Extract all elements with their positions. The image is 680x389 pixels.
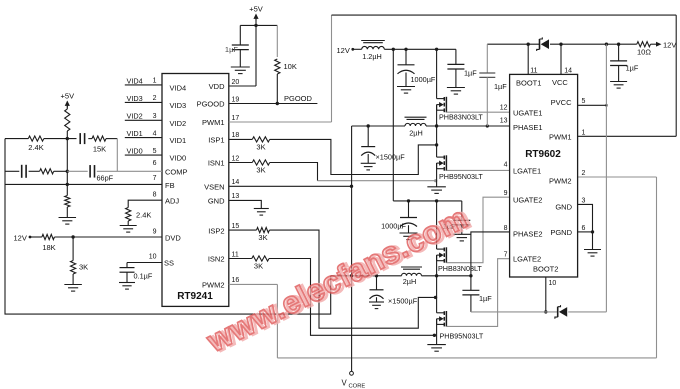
diode D2 bootstrap [555,305,567,319]
svg-text:18K: 18K [42,243,55,252]
svg-text:VID1: VID1 [170,136,187,145]
svg-text:19: 19 [232,96,240,103]
svg-text:PWM1: PWM1 [202,118,225,127]
svg-text:VID0: VID0 [127,147,143,156]
wire 1uF-10K top tie [240,24,277,57]
resistor R10 3K [252,256,269,271]
capacitor C7 x1500uF [361,126,405,163]
svg-text:VDD: VDD [209,82,225,91]
wire DVD row [54,235,162,238]
power +5V rail (left divider) [61,91,75,109]
op-amp U1 RT9241 body [162,74,229,307]
wire 12V boot line [487,43,637,46]
svg-text:PHASE2: PHASE2 [513,230,543,239]
svg-text:VSEN: VSEN [204,183,224,192]
capacitor C9 1uF [443,201,471,234]
node RT9602 pin 4 [504,161,508,168]
svg-text:VID2: VID2 [127,112,143,121]
ground for C4 [119,283,135,290]
svg-text:7: 7 [153,175,157,182]
node RT9241 pin 16 PWM2 label [202,277,239,289]
node RT9602 BOOT1 label [516,79,541,88]
svg-text:1µF: 1µF [464,69,477,78]
node RT9602 pin 10 [549,280,557,287]
svg-text:ISP1: ISP1 [208,136,224,145]
wire ADJ to R4 [128,200,162,207]
svg-text:10: 10 [149,254,157,261]
node RT9602 PHASE2 label [513,230,543,239]
svg-text:9: 9 [153,228,157,235]
node pin8 ADJ label [153,192,180,206]
svg-text:DVD: DVD [165,233,181,242]
node RT9602 pin 11 [530,68,537,75]
svg-text:ISN1: ISN1 [208,159,225,168]
svg-text:VCC: VCC [552,78,568,87]
node RT9241 pin 11 ISN2 label [208,251,239,263]
svg-text:5: 5 [153,148,157,155]
node RT9241 pin 17 PWM1 label [202,115,239,127]
node RT9241 pin 12 ISN1 label [208,155,240,167]
wire VCC stub [560,44,562,74]
node pin7 FB label [153,175,175,190]
node RT9602 pin 3 [582,197,586,204]
svg-text:COMP: COMP [165,167,188,176]
power +5V rail (VDD) [249,5,263,87]
node RT9602 pin 14 [564,68,572,75]
capacitor C4 0.1uF [120,268,153,283]
wire DVD divider drop [72,237,74,261]
wire ISP1 lead [229,138,253,140]
node RT9602 PGND label [550,228,572,237]
wire FB left loop [5,139,331,315]
resistor R5 18K [42,234,56,252]
svg-text:2.4K: 2.4K [28,143,43,152]
ground for C_vdd [231,67,250,74]
transistor Q1 PHB83N03LT [437,49,484,126]
wire BOOT1 stub [527,44,529,74]
capacitor C_comp2 [22,165,26,178]
svg-text:3: 3 [153,113,157,120]
wire BOOT2 stub [544,277,547,314]
op-amp U2 RT9602 body [510,74,578,277]
node RT9602 PWM1 label [549,133,572,142]
diode D1 bootstrap [537,37,549,51]
svg-text:12V: 12V [337,46,350,55]
svg-text:11: 11 [232,251,239,258]
svg-text:18: 18 [232,132,240,139]
node RT9602 pin 12 [500,104,508,111]
node RT9602 UGATE1 label [513,109,542,118]
ground for C5 [397,87,415,94]
svg-text:1: 1 [153,78,157,85]
wire FB divider vertical [66,137,69,196]
svg-text:1000µF: 1000µF [411,75,436,84]
svg-text:V: V [342,379,348,388]
svg-text:ISN2: ISN2 [208,255,225,264]
svg-text:PHB95N03LT: PHB95N03LT [439,172,483,181]
svg-text:VID4: VID4 [127,76,143,85]
wire VID0 input net [125,147,186,163]
inductor L3 2uH [401,267,422,286]
svg-text:6: 6 [582,225,586,232]
node RT9602 pin 8 [504,225,508,232]
wire GND PGND tie [578,204,595,249]
wire UGATE1 net [446,111,509,113]
svg-text:VID1: VID1 [127,129,143,138]
wire PHASE2 pin drop [469,232,509,291]
capacitor C8 1000uF [381,201,417,233]
svg-text:PHB83N03LT: PHB83N03LT [438,264,482,273]
ground for C10 [369,302,384,309]
svg-text:13: 13 [232,193,240,200]
svg-text:1: 1 [582,129,586,136]
capacitor C10 x1500uF [370,276,418,306]
wire 12V feed ch2 vertical [392,49,394,201]
svg-text:LGATE2: LGATE2 [513,255,541,264]
svg-text:+5V: +5V [61,91,75,100]
svg-text:2µH: 2µH [409,129,423,138]
svg-text:VID3: VID3 [127,94,143,103]
wire FB row [5,183,162,185]
transistor Q4 PHB95N03LT [437,276,484,345]
svg-text:ISP2: ISP2 [208,226,224,235]
node RT9241 pin 20 VDD label [209,79,240,91]
capacitor C12 1uF bootstrap1 [479,44,507,126]
node RT9602 UGATE2 label [513,196,542,205]
node RT9602 pin 6 [582,225,586,232]
svg-text:1µF: 1µF [225,45,238,54]
resistor R1 2.4K [28,136,44,152]
wire comp join vertical [116,139,118,172]
inductor L2 2uH [405,117,427,137]
wire GND pin13 [229,200,261,208]
wire ISP2 lead [229,229,257,231]
node RT9602 pin 2 [582,170,586,177]
svg-text:3K: 3K [79,263,88,272]
svg-text:15K: 15K [93,145,106,154]
svg-text:4: 4 [153,130,157,137]
svg-text:VID2: VID2 [170,119,187,128]
node RT9602 BOOT2 label [533,265,558,274]
svg-text:16: 16 [232,277,240,284]
svg-text:3K: 3K [256,166,265,175]
node RT9602 pin 5 [582,98,586,105]
resistor R_div_top [65,109,70,139]
wire ISN2 route [269,259,436,337]
svg-text:10K: 10K [284,62,297,71]
svg-text:2: 2 [153,95,157,102]
svg-text:20: 20 [232,79,240,86]
svg-text:FB: FB [165,181,175,190]
svg-text:14: 14 [564,68,572,75]
svg-text:4: 4 [504,161,508,168]
svg-text:PGND: PGND [550,228,572,237]
capacitor C13 1uF [610,44,639,81]
ground for U2 GND [584,250,601,257]
svg-text:12: 12 [500,104,508,111]
node RT9602 pin 7 [504,252,508,259]
wire ISN2 lead [229,258,252,260]
svg-text:PVCC: PVCC [551,98,572,107]
wire 12V rail ch2 [393,199,462,202]
wire BOOT2 line [471,311,607,313]
svg-text:7: 7 [504,252,508,259]
svg-text:LGATE1: LGATE1 [513,167,541,176]
node RT9602 pin 13 [500,118,508,125]
wire PHASE1 line [352,124,510,127]
resistor R8 3K [252,160,269,175]
svg-text:+5V: +5V [249,5,263,14]
svg-text:2µH: 2µH [403,277,417,286]
svg-text:13: 13 [500,118,508,125]
wire LGATE2 net [446,259,509,327]
resistor R9 3K [257,228,270,243]
svg-text:VID3: VID3 [170,101,187,110]
wire VCORE vertical [350,126,354,375]
resistor R6 3K [71,261,89,285]
wire LGATE1 net [446,169,509,171]
resistor R2 15K [92,136,106,154]
node RT9602 VCC label [552,78,568,87]
wire comp row1 [5,138,117,140]
svg-text:1µF: 1µF [479,294,492,303]
wire VID1 input net [125,129,186,145]
ground for R6 [64,285,82,292]
wire VID3 input net [125,94,186,110]
wire PVCC row [578,104,607,106]
svg-text:3K: 3K [256,143,265,152]
wire VDD pin20 to +5V [229,85,256,87]
ground for Q2 source [427,187,446,194]
svg-text:PWM1: PWM1 [549,133,572,142]
svg-text:PHASE1: PHASE1 [513,123,543,132]
wire PHASE2 line [331,274,471,277]
wire VSEN net [229,185,353,188]
wire VID4 input net [125,76,186,92]
node RT9602 pin 9 [504,190,508,197]
svg-text:8: 8 [153,192,157,199]
transistor Q2 PHB95N03LT [437,126,484,187]
resistor R11 10ohm [637,42,652,57]
svg-text:1.2µH: 1.2µH [362,52,382,61]
ground for R4 [120,226,137,233]
svg-text:12V: 12V [663,41,676,50]
capacitor C_comp1 [80,133,84,144]
node RT9602 LGATE1 label [513,167,541,176]
svg-text:2: 2 [582,170,586,177]
power 12V source (ch1) [337,46,362,55]
svg-text:11: 11 [530,68,537,75]
svg-text:ADJ: ADJ [165,197,179,206]
svg-text:VID0: VID0 [170,154,187,163]
node pin10 SS label [149,254,174,268]
svg-text:GND: GND [208,197,225,206]
capacitor C3 66pF [90,165,114,182]
node pin6 COMP label [153,160,188,176]
svg-text:3: 3 [582,197,586,204]
svg-text:GND: GND [555,203,572,212]
svg-text:BOOT1: BOOT1 [516,79,541,88]
wire 12V rail ch1 [384,48,456,51]
resistor R3 [40,169,54,174]
wire ISN1 lead [229,162,253,164]
inductor L1 1.2uH [361,41,385,62]
ground for C6 [447,88,465,95]
node RT9241 pin 19 PGOOD label [197,96,240,108]
node RT9602 PWM2 label [549,177,572,186]
svg-text:1µF: 1µF [626,64,639,73]
capacitor C11 1uF bootstrap2 [462,290,492,312]
wire PVCC feed vertical [605,44,608,312]
svg-text:VID4: VID4 [170,83,187,92]
node RT9602 PVCC label [551,98,572,107]
svg-text:10Ω: 10Ω [637,48,651,57]
wire PWM2 route [229,177,657,358]
power 12V source (DVD) [14,233,42,242]
resistor R7 3K [252,137,269,152]
wire SS row [127,263,162,268]
wire VID2 input net [125,112,186,128]
svg-text:3K: 3K [258,233,267,242]
resistor R_pgood 10K [275,59,297,104]
svg-text:8: 8 [504,225,508,232]
node RT9602 pin 1 [582,129,586,136]
svg-text:5: 5 [582,98,586,105]
svg-text:PWM2: PWM2 [549,177,572,186]
node RT9241 pin 13 GND label [208,193,240,205]
svg-text:PGOOD: PGOOD [197,100,226,109]
wire comp row2 [5,170,162,172]
ground for C9 [453,234,471,241]
svg-text:6: 6 [153,160,157,167]
svg-text:×1500µF: ×1500µF [376,153,406,162]
svg-text:17: 17 [232,115,240,122]
svg-text:12V: 12V [14,233,27,242]
wire UGATE2 net [446,197,509,263]
svg-text:0.1µF: 0.1µF [134,272,153,281]
svg-text:×1500µF: ×1500µF [388,297,418,306]
svg-text:14: 14 [232,179,240,186]
node RT9241 pin 15 ISP2 label [208,223,239,235]
ground for C13 [610,82,627,89]
svg-text:UGATE1: UGATE1 [513,109,542,118]
svg-text:CORE: CORE [349,384,366,389]
node RT9602 GND label [555,203,572,212]
node VCORE label [342,379,366,389]
capacitor C5 1000uF [398,49,436,86]
node RT9241 pin 18 ISP1 label [208,132,239,144]
svg-text:12: 12 [232,155,240,162]
svg-text:UGATE2: UGATE2 [513,196,542,205]
transistor Q3 PHB83N03LT [437,201,483,276]
ground for divider [59,218,77,225]
svg-text:10: 10 [549,280,557,287]
watermark www.elecfans.com [201,199,476,361]
svg-text:PWM2: PWM2 [202,281,225,290]
wire ISN1 route [270,163,438,183]
node pin9 DVD label [153,228,182,242]
svg-text:66pF: 66pF [97,174,114,183]
ground for Q4 source [427,345,446,352]
svg-text:PGOOD: PGOOD [284,94,313,103]
node RT9241 pin 14 VSEN label [204,179,239,191]
svg-text:3K: 3K [254,262,263,271]
wire ISP2 route [269,230,437,328]
wire PGOOD net [229,94,318,105]
ground for C8 [400,233,418,240]
node RT9602 LGATE2 label [513,255,541,264]
svg-text:PHB83N03LT: PHB83N03LT [439,113,483,122]
svg-text:RT9602: RT9602 [525,149,561,160]
svg-text:RT9241: RT9241 [177,291,213,302]
svg-text:PHB95N03LT: PHB95N03LT [440,332,484,341]
svg-text:1µF: 1µF [494,82,507,91]
wire PWM1 route [229,15,676,136]
svg-text:9: 9 [504,190,508,197]
wire ISP1 route [270,139,439,174]
capacitor C_vdd 1uF [225,45,249,67]
power 12V source (right) [651,41,677,50]
svg-text:15: 15 [232,223,240,230]
resistor R_div_bot [65,196,70,218]
ground for C7 [361,163,376,170]
svg-text:2.4K: 2.4K [136,211,151,220]
capacitor C6 1uF [447,49,477,87]
resistor R4 2.4K [126,208,152,226]
svg-text:BOOT2: BOOT2 [533,265,558,274]
ground for GND pin [254,209,269,216]
node RT9602 PHASE1 label [513,123,543,132]
svg-text:SS: SS [164,259,174,268]
